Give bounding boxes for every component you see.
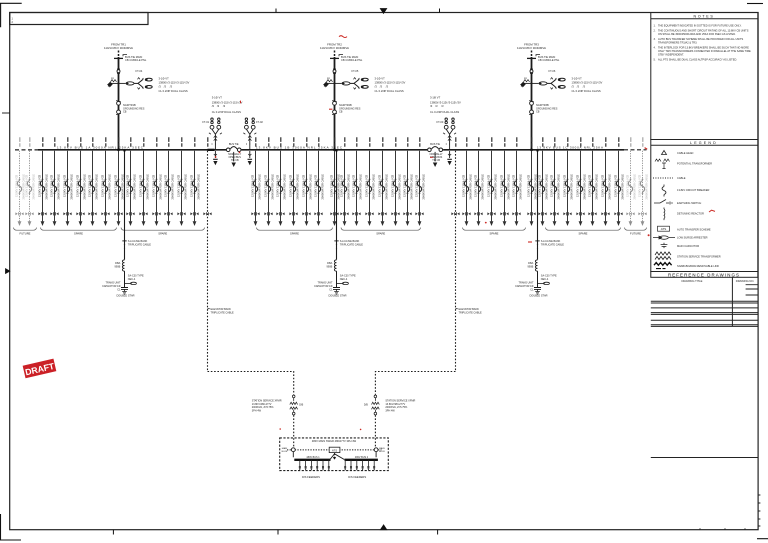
svg-text:13800/√3-115/√3-115/√3V: 13800/√3-115/√3-115/√3V	[159, 81, 190, 85]
svg-text:FT-06: FT-06	[549, 69, 556, 73]
wire: 13.8kV bus 1A segment	[38, 149, 226, 151]
svg-text:FUTURE: FUTURE	[630, 232, 641, 236]
svg-text:3-1Φ VT: 3-1Φ VT	[572, 77, 583, 81]
svg-text:FT-04: FT-04	[136, 69, 143, 73]
low surge arrester: filter branch	[337, 282, 349, 284]
svg-text:EARTHING SWITCH: EARTHING SWITCH	[677, 201, 701, 205]
svg-text:13800/√3-115/√3-115/√3V: 13800/√3-115/√3-115/√3V	[430, 101, 461, 105]
svg-text:3.: 3.	[654, 37, 656, 41]
svg-text:13.8KV 1200A VCB: 13.8KV 1200A VCB	[15, 174, 19, 197]
feeder W37 with breaker	[550, 137, 561, 226]
svg-text:2000KVA FDR CABLE: 2000KVA FDR CABLE	[595, 174, 599, 200]
svg-text:REFERENCE DRAWINGS: REFERENCE DRAWINGS	[668, 272, 740, 277]
svg-text:NEC-4: NEC-4	[128, 278, 136, 281]
svg-text:2000KVA FDR CABLE: 2000KVA FDR CABLE	[83, 174, 87, 200]
svg-text:5.: 5.	[654, 58, 656, 62]
label: bus VT ratings	[212, 95, 243, 114]
red annotation: dots at bus tie	[239, 152, 241, 154]
red annotation: dot at FT-01 stub	[215, 156, 217, 158]
svg-text:D/S FEEDERS: D/S FEEDERS	[302, 475, 320, 479]
svg-text:TRANSFORMERS TR1/A2 & TR3.: TRANSFORMERS TR1/A2 & TR3.	[658, 41, 698, 45]
svg-text:SPARE: SPARE	[74, 232, 83, 236]
svg-text:2000KVA FDR CABLE: 2000KVA FDR CABLE	[95, 174, 99, 200]
feeder W41 with breaker	[601, 137, 612, 226]
svg-text:13.8KV 1200A VCB: 13.8KV 1200A VCB	[38, 174, 42, 197]
potential transformer FT-05 on TR2	[350, 78, 368, 90]
low surge arrester on TR3 PT branch	[532, 82, 548, 85]
feeder W10 with breaker	[126, 137, 137, 226]
feeder W35 with breaker	[527, 137, 538, 226]
node: filter cable junction	[334, 241, 338, 249]
breaker: TR1 drawout contacts	[116, 101, 121, 115]
wire: mains to 480V buses	[293, 452, 376, 458]
svg-text:2000KVA FDR CABLE: 2000KVA FDR CABLE	[197, 174, 201, 200]
capacitor: filter capacitor	[121, 288, 128, 292]
label: cable feeder name	[456, 308, 458, 310]
svg-text:2000KVA FDR CABLE: 2000KVA FDR CABLE	[570, 174, 574, 200]
svg-text:BLKR: BLKR	[379, 451, 385, 453]
label: bus VT ratings	[430, 95, 461, 114]
feeder W36 with breaker	[538, 137, 549, 226]
svg-text:13.8KV 1200A VCB: 13.8KV 1200A VCB	[63, 174, 67, 197]
feeder W05 with breaker	[63, 137, 74, 226]
svg-text:ALL PTS SHALL BE DUAL CLASS AL: ALL PTS SHALL BE DUAL CLASS ALTP/3P ACCU…	[658, 58, 737, 62]
svg-text:990B: 990B	[527, 265, 533, 268]
svg-text:CL 0.2/3P DUAL CLASS: CL 0.2/3P DUAL CLASS	[212, 110, 241, 114]
node: TR2 removable link	[333, 69, 336, 73]
breaker: bus tie CB at x=429	[428, 147, 443, 152]
svg-text:2000KVA FDR CABLE: 2000KVA FDR CABLE	[171, 174, 175, 200]
svg-text:13.8KV 1200A VCB: 13.8KV 1200A VCB	[563, 174, 567, 197]
svg-text:D/S FEEDERS: D/S FEEDERS	[348, 475, 366, 479]
svg-text:110/13.8KV 30/40MVA: 110/13.8KV 30/40MVA	[104, 46, 133, 50]
label: SPARE group bracket	[41, 228, 117, 231]
svg-text:2000KVA FDR CABLE: 2000KVA FDR CABLE	[422, 174, 426, 200]
inductor: detuning reactor	[535, 260, 537, 271]
junction: bus splice at cable feeder W16	[208, 149, 215, 151]
svg-text:ON SHALL BE 3000/2500/1200A AN: ON SHALL BE 3000/2500/1200A AND 25KA FOR…	[658, 32, 736, 36]
svg-text:13.8KV 1200A VCB: 13.8KV 1200A VCB	[638, 174, 642, 197]
svg-text:NEC-4: NEC-4	[340, 278, 348, 281]
junction: TR3 at bus	[530, 148, 533, 151]
svg-text:13.8KV 1200A VCB: 13.8KV 1200A VCB	[462, 174, 466, 197]
label: SPARE group bracket	[546, 228, 621, 231]
feeder W31 with breaker	[474, 137, 485, 226]
feeder W12 with breaker	[152, 137, 163, 226]
svg-text:/3 /3 /3: /3 /3 /3	[572, 84, 586, 88]
feeder W39 with breaker	[576, 137, 587, 226]
svg-text:NEC-4: NEC-4	[541, 278, 549, 281]
svg-text:2000KVA FDR CABLE: 2000KVA FDR CABLE	[608, 174, 612, 200]
svg-text:TRIPLICATE CABLE: TRIPLICATE CABLE	[340, 244, 363, 247]
svg-text:13.8KV 1200A VCB: 13.8KV 1200A VCB	[365, 174, 369, 197]
label: SPARE group bracket	[341, 228, 421, 231]
svg-text:AUTO TRANSFER SCHEME: AUTO TRANSFER SCHEME	[677, 228, 711, 232]
future feeder W43 with breaker	[626, 137, 637, 226]
svg-text:CABLE: CABLE	[677, 176, 686, 180]
svg-text:13.8KV 1200A VCB: 13.8KV 1200A VCB	[391, 174, 395, 197]
svg-text:2000KVA FDR CABLE: 2000KVA FDR CABLE	[398, 174, 402, 200]
svg-text:SNABI-BIGBAW REMOVABLE LINK: SNABI-BIGBAW REMOVABLE LINK	[677, 264, 719, 268]
wire: bus tie lower stub	[434, 152, 437, 166]
svg-text:CB: CB	[339, 111, 343, 114]
potential transformer FT-06 on TR3	[547, 78, 565, 90]
label: FUTURE group bracket	[14, 228, 37, 231]
svg-text:DOUBLE STAR: DOUBLE STAR	[328, 294, 346, 298]
breaker: 480V main CB 1	[291, 448, 295, 452]
svg-text:13.8KV 1200A VCB: 13.8KV 1200A VCB	[139, 174, 143, 197]
svg-text:1.: 1.	[654, 24, 656, 28]
title block: LEGEND box	[651, 140, 758, 272]
svg-text:CL 0.2/3P DUAL CLASS: CL 0.2/3P DUAL CLASS	[430, 110, 459, 114]
svg-text:CB: CB	[536, 111, 540, 114]
svg-text:13.8KV 1200A VCB: 13.8KV 1200A VCB	[190, 174, 194, 197]
node: TR2 cable termination	[330, 55, 343, 59]
svg-text:13.8KV 1200A VCB: 13.8KV 1200A VCB	[352, 174, 356, 197]
feeder W32 with breaker	[487, 137, 498, 226]
red annotation: DRAFT stamp	[23, 359, 57, 379]
feeder W15 with breaker	[190, 137, 201, 226]
svg-text:2000KVA FDR CABLE: 2000KVA FDR CABLE	[108, 174, 112, 200]
feeder W34 with breaker	[512, 137, 523, 226]
svg-text:ATS: ATS	[332, 448, 337, 452]
svg-text:TRIPLICATE CABLE: TRIPLICATE CABLE	[541, 244, 564, 247]
svg-text:2000KVA FDR CABLE: 2000KVA FDR CABLE	[321, 174, 325, 200]
inductor: detuning reactor	[122, 260, 124, 271]
junction: TR1 PT branch tap	[118, 82, 120, 84]
node: filter cable junction	[535, 241, 539, 249]
svg-text:3-1Φ VT: 3-1Φ VT	[430, 95, 441, 99]
legend symbol: auto transfer scheme ATS box	[658, 226, 670, 231]
svg-text:13.8KV 1200A VCB: 13.8KV 1200A VCB	[276, 174, 280, 197]
potential transformer FT-01 on bus	[209, 118, 222, 150]
feeder W42 with breaker	[614, 137, 625, 226]
svg-text:13800/√3-115/√3-115/√3V: 13800/√3-115/√3-115/√3V	[572, 81, 603, 85]
svg-text:2000KVA FDR CABLE: 2000KVA FDR CABLE	[469, 174, 473, 200]
svg-text:990B: 990B	[326, 265, 332, 268]
red annotation: tick at bus right end	[645, 148, 648, 150]
feeder: filter bank at x=124	[124, 151, 126, 260]
svg-text:2000KVA FDR CABLE: 2000KVA FDR CABLE	[133, 174, 137, 200]
legend symbol: removable link	[654, 263, 672, 269]
svg-text:SPARE: SPARE	[158, 232, 167, 236]
feeder W06 with breaker	[76, 137, 87, 226]
svg-text:13.8KV 1200A VCB: 13.8KV 1200A VCB	[340, 174, 344, 197]
wire: cable routing elbow	[208, 372, 294, 395]
feeder W20 with breaker	[302, 137, 313, 226]
feeder W23 with breaker	[340, 137, 351, 226]
low surge arrester on TR2 PT branch	[335, 82, 351, 85]
svg-text:13.8KV 1200A VCB: 13.8KV 1200A VCB	[512, 174, 516, 197]
svg-text:13.8KV BUS 1C 3000A NRL 25KA: 13.8KV BUS 1C 3000A NRL 25KA	[537, 146, 604, 150]
svg-text:D/B: D/B	[299, 404, 303, 407]
wire: FT-01 drawout stub below bus	[213, 151, 218, 164]
svg-text:SPARE: SPARE	[579, 232, 588, 236]
svg-text:13.8KV 1200A VCB: 13.8KV 1200A VCB	[126, 174, 130, 197]
svg-text:3PH 4W: 3PH 4W	[252, 410, 262, 413]
legend symbol: station service transformer	[655, 252, 671, 260]
feeder W25 with breaker	[365, 137, 376, 226]
svg-text:2000KVA FDR CABLE: 2000KVA FDR CABLE	[159, 174, 163, 200]
svg-text:CL 0.2/3P DUAL CLASS: CL 0.2/3P DUAL CLASS	[572, 89, 601, 93]
svg-text:CB CUBICLE PNL: CB CUBICLE PNL	[125, 58, 147, 62]
svg-text:13.8KV 1200A VCB: 13.8KV 1200A VCB	[500, 174, 504, 197]
svg-text:2000KVA FDR CABLE: 2000KVA FDR CABLE	[519, 174, 523, 200]
feeder W40 with breaker	[588, 137, 599, 226]
svg-text:2000KVA FDR CABLE: 2000KVA FDR CABLE	[372, 174, 376, 200]
future feeder W02 with breaker	[25, 137, 36, 226]
feeder W04 with breaker	[50, 137, 61, 226]
svg-text:13.8KV 1200A VCB: 13.8KV 1200A VCB	[177, 174, 181, 197]
svg-text:2000KVA FDR CABLE: 2000KVA FDR CABLE	[557, 174, 561, 200]
legend symbol: main capacitor	[661, 243, 668, 248]
svg-text:480V BUS 2: 480V BUS 2	[355, 456, 369, 459]
label: SPARE group bracket	[463, 228, 526, 231]
svg-text:BUS TIE: BUS TIE	[229, 143, 239, 146]
legend symbol: cable head	[662, 151, 667, 155]
svg-text:13.8KV 1200A VCB: 13.8KV 1200A VCB	[25, 174, 29, 197]
svg-text:SPARE: SPARE	[376, 232, 385, 236]
svg-text:4.: 4.	[654, 46, 656, 50]
svg-text:13.8KV 1200A VCB: 13.8KV 1200A VCB	[538, 174, 542, 197]
svg-text:/3 /3 /3: /3 /3 /3	[212, 104, 226, 108]
wire: 13.8kV bus 1B segment	[241, 149, 427, 151]
legend symbol: detuning reactor	[663, 208, 666, 221]
svg-text:TRIPLICATE CABLE: TRIPLICATE CABLE	[211, 311, 234, 314]
svg-text:/3 /3 /3: /3 /3 /3	[159, 84, 173, 88]
feeder W08 with breaker	[101, 137, 112, 226]
svg-text:CL 0.2/3P DUAL CLASS: CL 0.2/3P DUAL CLASS	[375, 89, 404, 93]
svg-text:D/B: D/B	[364, 404, 368, 407]
wire: future cable feeder at x=208 (dotted)	[207, 137, 209, 146]
red annotation: dash at bus tie 2 label	[430, 156, 433, 158]
red annotation: check mark in legend	[709, 210, 715, 212]
feeder W09 with breaker	[114, 137, 125, 226]
junction: TR3 PT branch tap	[531, 82, 533, 84]
feeder W16 with breaker	[251, 137, 262, 226]
svg-text:POTENTIAL TRANSFORMER: POTENTIAL TRANSFORMER	[677, 162, 712, 166]
svg-text:CB CUBICLE PNL: CB CUBICLE PNL	[538, 58, 560, 62]
ground: filter bank earth	[122, 292, 127, 295]
feeder W29 with breaker	[415, 137, 426, 226]
svg-text:13.8KV 1200A VCB: 13.8KV 1200A VCB	[50, 174, 54, 197]
future feeder W44 with breaker	[638, 137, 649, 226]
svg-text:110/13.8KV 30/40MVA: 110/13.8KV 30/40MVA	[517, 46, 546, 50]
svg-text:2000KVA FDR CABLE: 2000KVA FDR CABLE	[494, 174, 498, 200]
svg-text:CB: CB	[123, 111, 127, 114]
svg-text:2000KVA FDR CABLE: 2000KVA FDR CABLE	[385, 174, 389, 200]
svg-text:ATS: ATS	[661, 227, 667, 231]
svg-text:13.8KV 1200A VCB: 13.8KV 1200A VCB	[314, 174, 318, 197]
title block: REFERENCE DRAWINGS section	[651, 272, 758, 278]
svg-text:DETUNING REACTOR: DETUNING REACTOR	[677, 211, 704, 215]
ground: filter bank earth	[535, 292, 540, 295]
enclosure: 480V main switchgear (future dashed)	[280, 438, 389, 471]
svg-text:2000KVA FDR CABLE: 2000KVA FDR CABLE	[309, 174, 313, 200]
potential transformer FT-04 on TR1	[134, 78, 152, 90]
svg-text:2000KVA FDR CABLE: 2000KVA FDR CABLE	[32, 174, 36, 200]
svg-text:BLKR: BLKR	[282, 451, 288, 453]
svg-text:13.8KV 1200A VCB: 13.8KV 1200A VCB	[289, 174, 293, 197]
node: TR1 removable link	[117, 69, 120, 73]
transformer TR2 incoming feeder	[320, 43, 349, 150]
device: ATS auto transfer switch	[329, 447, 340, 452]
svg-text:CL 0.2/3P DUAL CLASS: CL 0.2/3P DUAL CLASS	[159, 89, 188, 93]
svg-text:13.8KV 1200A VCB: 13.8KV 1200A VCB	[101, 174, 105, 197]
svg-text:BUS TIE MAIN: BUS TIE MAIN	[341, 55, 358, 59]
svg-text:2000KVA FDR CABLE: 2000KVA FDR CABLE	[184, 174, 188, 200]
feeder: 480V bus 1 downstream feeders	[299, 460, 330, 471]
svg-text:2000KVA FDR CABLE: 2000KVA FDR CABLE	[621, 174, 625, 200]
svg-text:2000KVA FDR CABLE: 2000KVA FDR CABLE	[45, 174, 49, 200]
svg-text:2000KVA FDR CABLE: 2000KVA FDR CABLE	[347, 174, 351, 200]
feeder W26 with breaker	[378, 137, 389, 226]
feeder: filter bank at x=336	[336, 151, 338, 260]
svg-text:STBY INDEPENDENT.: STBY INDEPENDENT.	[658, 52, 684, 56]
svg-text:480V BUS 1: 480V BUS 1	[306, 456, 320, 459]
svg-text:CABLE HEAD: CABLE HEAD	[677, 151, 694, 155]
label: cable feeder name	[208, 308, 210, 310]
label: TR3 VT ratings	[572, 77, 603, 93]
svg-text:13.8KV 1200A VCB: 13.8KV 1200A VCB	[550, 174, 554, 197]
node: 480V BUS 2	[345, 459, 378, 461]
svg-text:MAIN CAPACITOR: MAIN CAPACITOR	[677, 244, 699, 248]
feeder W14 with breaker	[177, 137, 188, 226]
node: 480V BUS 1	[294, 459, 330, 461]
wire: 13.8kV bus future dashed right end	[624, 149, 647, 151]
junction: TR2 at bus	[333, 148, 336, 151]
svg-text:FT-03: FT-03	[437, 120, 444, 124]
feeder: 480V bus 2 downstream feeders	[344, 460, 375, 471]
svg-text:13.8KV 1200A VCB: 13.8KV 1200A VCB	[576, 174, 580, 197]
svg-text:2000KVA FDR CABLE: 2000KVA FDR CABLE	[121, 174, 125, 200]
svg-text:TIE CB: TIE CB	[432, 159, 440, 162]
svg-text:13.8KV 1200A VCB: 13.8KV 1200A VCB	[474, 174, 478, 197]
feeder W22 with breaker	[330, 137, 341, 226]
wire: border centering ticks	[2, 9, 440, 535]
wire: cable routing elbow	[375, 372, 455, 395]
red annotation: dot at spare feeder	[485, 222, 487, 224]
wire: bus tie lower stub	[232, 152, 235, 166]
red annotation: mark in VT text	[240, 101, 242, 104]
feeder W18 with breaker	[276, 137, 287, 226]
potential transformer FT-02 on bus	[243, 118, 256, 150]
svg-text:13.8KV 1200A VCB: 13.8KV 1200A VCB	[76, 174, 80, 197]
red annotation: marks at TR2	[339, 36, 347, 38]
wire: FT-03 drawout stub below bus	[447, 151, 452, 164]
label: TR2 VT ratings	[375, 77, 406, 93]
title block: revision table	[651, 301, 758, 326]
svg-text:/3 /3 /3: /3 /3 /3	[375, 84, 389, 88]
red annotation: dot at legend edge	[648, 234, 650, 236]
svg-text:SPARE: SPARE	[290, 232, 299, 236]
feeder W21 with breaker	[314, 137, 325, 226]
node: TR1 cable termination	[114, 55, 127, 59]
wire: future cable feeder at x=456 (dotted)	[455, 137, 457, 146]
svg-text:2000KVA FDR CABLE: 2000KVA FDR CABLE	[283, 174, 287, 200]
svg-text:TRIPLICATE CABLE: TRIPLICATE CABLE	[459, 311, 482, 314]
node: filter cable junction	[122, 241, 126, 249]
svg-text:2000KVA FDR CABLE: 2000KVA FDR CABLE	[258, 174, 262, 200]
future feeder W01 with breaker	[15, 137, 26, 226]
svg-text:LA: LA	[327, 77, 330, 80]
label: SPARE group bracket	[121, 228, 205, 231]
svg-text:2000KVA FDR CABLE: 2000KVA FDR CABLE	[534, 174, 538, 200]
svg-text:13.8kV CIRCUIT BREAKER: 13.8kV CIRCUIT BREAKER	[677, 188, 710, 192]
svg-text:3-1Φ VT: 3-1Φ VT	[375, 77, 386, 81]
svg-text:2000KVA FDR CABLE: 2000KVA FDR CABLE	[296, 174, 300, 200]
svg-text:FT-02: FT-02	[256, 120, 263, 124]
svg-text:2.: 2.	[654, 29, 656, 33]
svg-text:BUS TIE MAIN: BUS TIE MAIN	[538, 55, 555, 59]
svg-text:LA: LA	[524, 77, 527, 80]
svg-text:TRIPLICATE CABLE: TRIPLICATE CABLE	[128, 244, 151, 247]
svg-text:13.8KV 1200A VCB: 13.8KV 1200A VCB	[614, 174, 618, 197]
svg-text:480V MAIN SWGR 480/277V 3PH 4W: 480V MAIN SWGR 480/277V 3PH 4W	[312, 439, 357, 443]
svg-text:110/13.8KV 30/40MVA: 110/13.8KV 30/40MVA	[320, 46, 349, 50]
breaker: TR2 drawout contacts	[332, 101, 337, 115]
svg-text:2000KVA FDR CABLE: 2000KVA FDR CABLE	[545, 174, 549, 200]
svg-text:13800/√3-115/√3-115/√3V: 13800/√3-115/√3-115/√3V	[375, 81, 406, 85]
wire: XFMR 1 secondary to switchgear	[293, 415, 295, 450]
feeder: filter bank at x=538	[537, 151, 539, 260]
wire: 480V tie bus	[287, 449, 382, 451]
svg-text:13.8KV 1200A VCB: 13.8KV 1200A VCB	[378, 174, 382, 197]
svg-text:13.8KV 1200A VCB: 13.8KV 1200A VCB	[114, 174, 118, 197]
svg-text:DRAWING TITLE: DRAWING TITLE	[682, 279, 703, 283]
legend symbol: potential transformer	[655, 159, 670, 169]
svg-text:FUTURE: FUTURE	[20, 232, 31, 236]
svg-text:2000KVA FDR CABLE: 2000KVA FDR CABLE	[645, 174, 649, 200]
transformer TR3 incoming feeder	[517, 43, 546, 150]
svg-text:13.8KV 1200A VCB: 13.8KV 1200A VCB	[330, 174, 334, 197]
junction: TR2 PT branch tap	[334, 82, 336, 84]
junction: TR1 at bus	[117, 148, 120, 151]
svg-text:13800/√3-115/√3-115/√3V: 13800/√3-115/√3-115/√3V	[212, 101, 243, 105]
svg-text:2000KVA FDR CABLE: 2000KVA FDR CABLE	[57, 174, 61, 200]
feeder W03 with breaker	[38, 137, 49, 226]
capacitor: filter capacitor	[534, 288, 541, 292]
legend symbol: low surge arrester	[653, 236, 675, 239]
svg-text:THE EQUIPMENT INDICATED IN DOT: THE EQUIPMENT INDICATED IN DOTTED IS FOR…	[658, 24, 742, 28]
potential transformer FT-03 on bus	[443, 118, 456, 150]
feeder W28 with breaker	[403, 137, 414, 226]
legend symbol: cable	[653, 177, 673, 179]
svg-text:13.8KV 1200A VCB: 13.8KV 1200A VCB	[403, 174, 407, 197]
breaker: TR3 drawout contacts	[529, 101, 534, 115]
svg-text:2000KVA FDR CABLE: 2000KVA FDR CABLE	[70, 174, 74, 200]
feeder W27 with breaker	[391, 137, 402, 226]
wire: FT-02 drawout stub below bus	[248, 151, 253, 164]
svg-text:FT-05: FT-05	[352, 69, 359, 73]
transformer: station service XFMR 1	[290, 395, 298, 415]
svg-text:3PH 4W: 3PH 4W	[385, 410, 395, 413]
svg-text:FT-01: FT-01	[202, 120, 209, 124]
label: SPARE group bracket	[257, 228, 333, 231]
svg-text:TIE CB: TIE CB	[231, 159, 239, 162]
feeder W24 with breaker	[352, 137, 363, 226]
svg-text:DOUBLE STAR: DOUBLE STAR	[529, 294, 547, 298]
label: TR1 VT ratings	[159, 77, 190, 93]
transformer TR1 incoming feeder	[104, 43, 133, 150]
svg-text:2000KVA FDR CABLE: 2000KVA FDR CABLE	[146, 174, 150, 200]
svg-text:13.8KV 1200A VCB: 13.8KV 1200A VCB	[164, 174, 168, 197]
svg-text:2000KVA FDR CABLE: 2000KVA FDR CABLE	[271, 174, 275, 200]
feeder W30 with breaker	[462, 137, 473, 226]
svg-text:/3 /3 /3: /3 /3 /3	[430, 104, 444, 108]
wire: 13.8kV bus 1C segment	[443, 149, 624, 151]
title block: main panel	[651, 457, 758, 459]
